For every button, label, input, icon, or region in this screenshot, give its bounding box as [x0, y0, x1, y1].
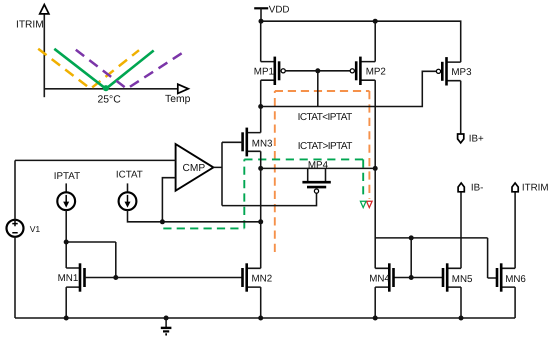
feedback path orange dashed	[275, 91, 370, 252]
junction gate node	[315, 68, 320, 73]
wire MN4-MN5 gate	[394, 277, 444, 279]
ground	[161, 318, 172, 334]
svg-text:MP1: MP1	[254, 67, 274, 78]
junction ICTAT-CMP	[160, 219, 165, 224]
svg-text:MN6: MN6	[505, 274, 526, 285]
wire MP2 source	[374, 21, 376, 61]
svg-text:MN5: MN5	[452, 274, 473, 285]
wire MP1 drain	[260, 80, 262, 106]
svg-text:ICTAT<IPTAT: ICTAT<IPTAT	[298, 112, 352, 123]
wire CMP output	[213, 142, 222, 205]
wire MN2 source	[260, 287, 262, 318]
power VDD	[254, 5, 289, 22]
graph x-axis	[44, 84, 188, 93]
junction gnd tap	[164, 316, 169, 321]
graph y-axis	[40, 5, 49, 98]
svg-text:ICTAT: ICTAT	[116, 170, 143, 181]
transistor MN5	[443, 263, 473, 291]
pin IB-	[458, 183, 483, 194]
wire MN2 drain	[260, 222, 262, 268]
arrow red	[367, 201, 373, 207]
junction gnd MN4	[373, 316, 378, 321]
transistor MN2	[243, 263, 273, 291]
svg-text:MP4: MP4	[308, 160, 329, 171]
junction MN4-MN5 gate	[409, 275, 414, 280]
wire VDD rail	[261, 21, 461, 62]
transistor MN4	[369, 263, 393, 291]
junction node left	[258, 166, 263, 171]
wire MN3 drain	[260, 107, 262, 133]
wire MN3-MP4 node	[261, 167, 376, 169]
curve yellow dashed V	[38, 49, 139, 89]
wire MN1 drain	[65, 242, 67, 268]
wire CMP -input	[162, 178, 175, 222]
wire IPTAT out	[65, 210, 67, 242]
svg-text:MN3: MN3	[252, 138, 273, 149]
svg-text:MN4: MN4	[369, 273, 390, 284]
junction VDD-MP1	[259, 19, 264, 24]
transistor MN6	[497, 263, 526, 291]
pin ITRIM	[512, 183, 549, 194]
wire MP1 source	[260, 21, 262, 61]
wire bus to gates	[410, 238, 412, 278]
wire MP1-MP2 gate	[285, 70, 350, 72]
wire MN6 drain	[514, 192, 516, 268]
svg-text:ITRIM: ITRIM	[16, 19, 44, 30]
transistor MN3	[243, 128, 273, 157]
svg-text:Temp: Temp	[165, 94, 191, 105]
feedback path green dashed	[163, 159, 363, 228]
junction VDD-MP2	[373, 19, 378, 24]
current source IPTAT	[54, 171, 80, 210]
wire MP2 drain	[374, 80, 376, 168]
junction ICTAT-node	[258, 219, 263, 224]
wire ICTAT rail	[128, 210, 261, 222]
junction bus gate tap	[409, 235, 414, 240]
transistor MP4	[302, 160, 330, 193]
svg-text:MP2: MP2	[366, 67, 386, 78]
wire CMP +input	[15, 159, 176, 161]
svg-text:V1: V1	[30, 224, 41, 234]
svg-text:CMP: CMP	[183, 163, 206, 174]
wire MP2 drain to MN4	[374, 168, 376, 268]
wire mirror gate to MP3	[261, 71, 437, 106]
transistor MP1	[254, 57, 286, 85]
svg-text:MP3: MP3	[451, 67, 472, 78]
wire mirror bus	[375, 238, 497, 278]
pin IB+	[458, 134, 484, 145]
current source ICTAT	[116, 170, 143, 211]
wire MN1-MN2 gate	[85, 277, 243, 279]
wire ground rail	[15, 317, 515, 319]
wire node to ICTAT rail	[260, 168, 262, 221]
wire MN1 source	[65, 287, 67, 318]
transistor MN1	[58, 263, 85, 291]
wire MN6 source	[514, 287, 516, 318]
svg-text:IB-: IB-	[471, 183, 484, 194]
svg-text:ICTAT>IPTAT: ICTAT>IPTAT	[298, 141, 352, 152]
source V1	[7, 220, 41, 237]
junction IPTAT-MN1	[64, 240, 69, 245]
transistor MP3	[436, 57, 472, 85]
svg-text:MN1: MN1	[58, 273, 79, 284]
junction node right	[373, 166, 378, 171]
svg-text:IPTAT: IPTAT	[54, 171, 80, 182]
curve purple dashed V	[76, 50, 185, 89]
svg-text:25°C: 25°C	[98, 94, 122, 105]
svg-text:ITRIM: ITRIM	[522, 183, 549, 194]
svg-text:IB+: IB+	[469, 134, 484, 145]
wire MN5 source	[460, 287, 462, 318]
arrow green	[360, 201, 366, 207]
wire MP4 gate	[222, 193, 317, 206]
wire MN3 source	[260, 151, 262, 168]
transistor MP2	[350, 57, 386, 85]
wire V1 bottom	[14, 237, 16, 318]
curve green solid V	[54, 49, 153, 91]
junction gnd MN2	[258, 316, 263, 321]
wire MN3 gate lead	[222, 141, 243, 143]
wire IPTAT node	[66, 242, 116, 278]
junction gnd MN5	[459, 316, 464, 321]
junction MN1 gate	[113, 275, 118, 280]
wire V1 top	[14, 160, 16, 219]
svg-text:MN2: MN2	[252, 273, 273, 284]
wire MN4 source	[374, 287, 376, 318]
op-amp CMP	[176, 144, 214, 191]
junction gnd MN1	[64, 316, 69, 321]
svg-text:VDD: VDD	[269, 5, 290, 16]
wire gate-drain tap	[317, 71, 319, 107]
junction MP1 drain node	[258, 104, 263, 109]
wire MN5 drain	[460, 192, 462, 268]
wire MP3 drain	[460, 81, 462, 134]
